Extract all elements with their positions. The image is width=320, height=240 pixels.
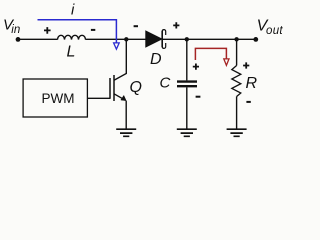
svg-text:C: C (160, 74, 171, 91)
wire inductor to diode (86, 38, 147, 40)
resistor R zigzag (232, 66, 241, 97)
ground (capacitor) (177, 129, 197, 136)
wire diode to Vout (163, 38, 256, 40)
PWM box (23, 79, 87, 117)
svg-text:in: in (11, 24, 20, 36)
polarity - (inductor right) (91, 29, 95, 31)
resistor R branch wire (top) (236, 39, 238, 65)
polarity - (diode left) (134, 25, 138, 27)
transistor Q body bar (113, 75, 115, 101)
svg-text:L: L (67, 44, 76, 61)
wire Vin to inductor (18, 38, 58, 40)
polarity - (resistor) (246, 101, 250, 103)
node junction 1 (collector/diode) (124, 37, 128, 41)
capacitor C plates (177, 82, 197, 87)
transistor Q (IGBT) gate wire from PWM (87, 97, 110, 99)
diode D (Schottky) (146, 31, 162, 47)
node junction 2 (capacitor branch) (185, 37, 189, 41)
node Vout terminal dot (253, 37, 258, 42)
svg-text:D: D (150, 51, 162, 68)
polarity + (diode right) (173, 22, 179, 28)
polarity + (inductor left) (44, 27, 51, 34)
capacitor C bottom wire (186, 87, 188, 129)
resistor R bottom wire (236, 97, 238, 130)
polarity - (capacitor) (196, 96, 201, 98)
transistor Q emitter with arrow (114, 94, 124, 99)
ground (resistor) (227, 129, 247, 136)
inductor L (58, 35, 86, 39)
capacitor C branch wire (top) (186, 39, 188, 80)
current arrow i (blue) (38, 20, 117, 43)
transistor Q collector wire (114, 39, 126, 80)
svg-text:out: out (266, 25, 283, 37)
ground (transistor) (116, 129, 136, 136)
svg-text:Q: Q (130, 79, 142, 96)
svg-text:PWM: PWM (42, 91, 75, 106)
node Vin terminal dot (16, 37, 21, 42)
polarity + (capacitor) (193, 64, 199, 70)
current loop arrow (red, C to R) (195, 48, 226, 60)
node junction 3 (resistor branch) (234, 37, 238, 41)
polarity + (resistor) (243, 62, 249, 68)
svg-text:R: R (246, 75, 258, 92)
transistor Q gate bar (109, 78, 111, 99)
